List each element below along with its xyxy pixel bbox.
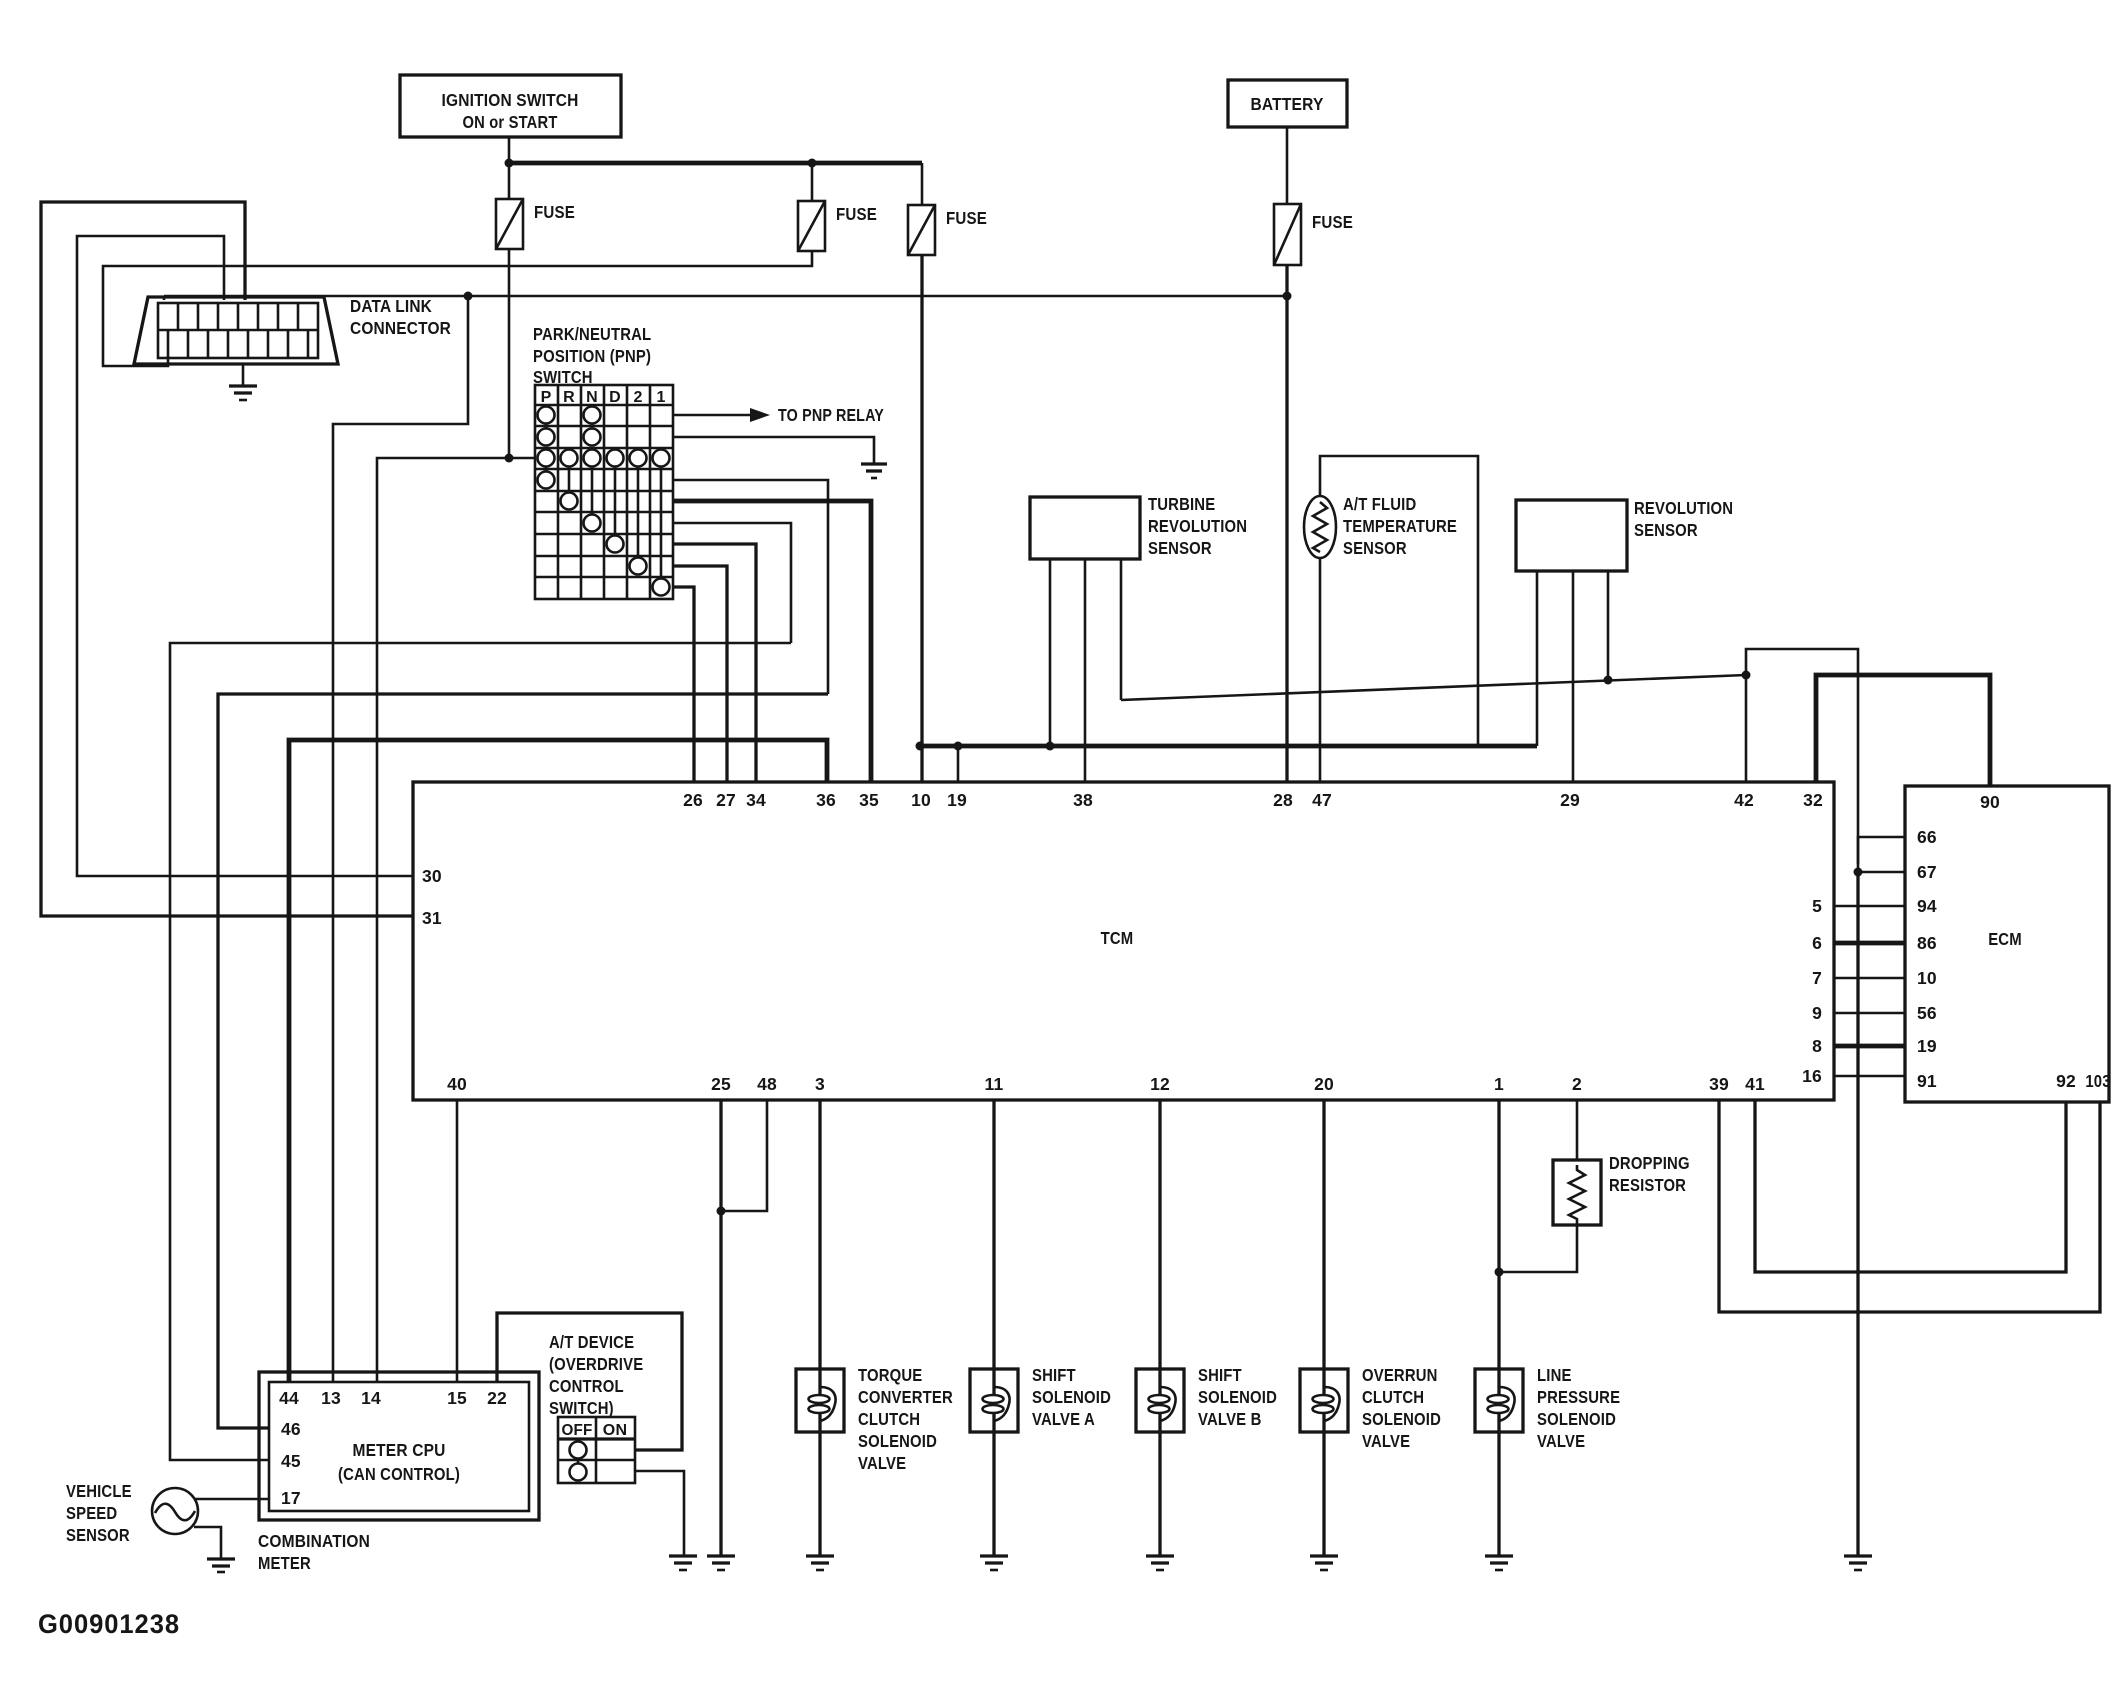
ignition feed bus bbox=[505, 159, 923, 168]
wire TCM pin 11 to shift solenoid A bbox=[992, 1100, 995, 1556]
wire meter pin 22 to A/T device bbox=[497, 1313, 682, 1450]
ground overrun clutch solenoid bbox=[1310, 1556, 1338, 1570]
svg-text:29: 29 bbox=[1560, 790, 1580, 810]
revolution sensor bbox=[1516, 500, 1627, 571]
svg-text:PARK/NEUTRAL: PARK/NEUTRAL bbox=[533, 324, 651, 344]
svg-text:13: 13 bbox=[321, 1388, 341, 1408]
ground shift solenoid A bbox=[980, 1556, 1008, 1570]
wire fuse F2 to data link connector bottom pin bbox=[103, 251, 812, 366]
ground under PNP relay line bbox=[861, 464, 887, 478]
wire dropping resistor to pin1 line bbox=[1499, 1225, 1577, 1272]
wire TCM pin 32 to ECM pin 90 bbox=[1816, 675, 1990, 786]
svg-text:SENSOR: SENSOR bbox=[1148, 538, 1212, 558]
svg-text:DATA LINK: DATA LINK bbox=[350, 296, 432, 316]
shift solenoid B label bbox=[1198, 1365, 1277, 1429]
svg-text:CLUTCH: CLUTCH bbox=[1362, 1387, 1424, 1407]
PNP common feed bbox=[505, 454, 536, 463]
svg-text:CONVERTER: CONVERTER bbox=[858, 1387, 953, 1407]
svg-text:SWITCH): SWITCH) bbox=[549, 1398, 614, 1418]
svg-text:48: 48 bbox=[757, 1074, 777, 1094]
svg-text:1: 1 bbox=[656, 389, 665, 406]
shift solenoid A label bbox=[1032, 1365, 1111, 1429]
svg-text:SOLENOID: SOLENOID bbox=[1198, 1387, 1277, 1407]
svg-text:METER: METER bbox=[258, 1553, 311, 1573]
svg-text:LINE: LINE bbox=[1537, 1365, 1572, 1385]
dropping resistor label bbox=[1609, 1153, 1690, 1195]
TCM-ECM interconnect 5-94 bbox=[1834, 905, 1905, 908]
svg-text:19: 19 bbox=[947, 790, 967, 810]
shift solenoid valve A bbox=[970, 1369, 1018, 1432]
svg-text:VALVE: VALVE bbox=[858, 1453, 906, 1473]
fuse F3 bbox=[908, 163, 987, 255]
TCM-ECM interconnect 16-91 bbox=[1834, 1075, 1905, 1078]
svg-text:SOLENOID: SOLENOID bbox=[858, 1431, 937, 1451]
svg-text:5: 5 bbox=[1812, 896, 1822, 916]
svg-text:103: 103 bbox=[2085, 1071, 2110, 1091]
turbine revolution sensor label bbox=[1148, 494, 1247, 558]
svg-text:CONNECTOR: CONNECTOR bbox=[350, 318, 451, 338]
vehicle speed sensor bbox=[152, 1488, 198, 1534]
TCM right pin labels bbox=[1802, 896, 1822, 1086]
svg-text:G00901238: G00901238 bbox=[38, 1609, 180, 1639]
svg-text:32: 32 bbox=[1803, 790, 1823, 810]
shift solenoid valve B bbox=[1136, 1369, 1184, 1432]
svg-text:38: 38 bbox=[1073, 790, 1093, 810]
wire TCM pin 12 to shift solenoid B bbox=[1158, 1100, 1161, 1556]
svg-text:44: 44 bbox=[279, 1388, 299, 1408]
ground ECM net bbox=[1844, 1556, 1872, 1570]
turbine revolution sensor bbox=[1030, 497, 1140, 559]
overrun clutch solenoid valve bbox=[1300, 1369, 1348, 1432]
wire battery branch to meter pin 13 bbox=[333, 296, 468, 1382]
fuse F4 bbox=[1274, 204, 1353, 265]
svg-text:DROPPING: DROPPING bbox=[1609, 1153, 1690, 1173]
svg-text:35: 35 bbox=[859, 790, 879, 810]
svg-text:VEHICLE: VEHICLE bbox=[66, 1481, 132, 1501]
TCM bottom pin labels bbox=[447, 1074, 1765, 1094]
svg-text:46: 46 bbox=[281, 1419, 301, 1439]
svg-text:28: 28 bbox=[1273, 790, 1293, 810]
wire battery to fuse F4 bbox=[1286, 127, 1289, 204]
ground shift solenoid B bbox=[1146, 1556, 1174, 1570]
meter CPU box bbox=[259, 1372, 539, 1520]
TCM-ECM interconnect 6-86 bbox=[1834, 941, 1905, 946]
svg-text:1: 1 bbox=[1494, 1074, 1504, 1094]
fuse F2 bbox=[798, 163, 877, 251]
wire TCM pin 2 to dropping resistor bbox=[1576, 1100, 1579, 1160]
data link connector label bbox=[350, 296, 451, 338]
svg-text:36: 36 bbox=[816, 790, 836, 810]
svg-text:91: 91 bbox=[1917, 1071, 1937, 1091]
svg-text:8: 8 bbox=[1812, 1036, 1822, 1056]
svg-text:ON: ON bbox=[603, 1422, 627, 1439]
svg-text:20: 20 bbox=[1314, 1074, 1334, 1094]
TCM-ECM interconnect 7-10 bbox=[1834, 977, 1905, 980]
svg-text:P: P bbox=[541, 389, 552, 406]
overrun clutch solenoid label bbox=[1362, 1365, 1441, 1451]
battery box bbox=[1228, 80, 1347, 127]
sensor shield net wire bbox=[1121, 671, 1751, 701]
svg-text:14: 14 bbox=[361, 1388, 381, 1408]
svg-text:10: 10 bbox=[911, 790, 931, 810]
svg-text:19: 19 bbox=[1917, 1036, 1937, 1056]
svg-text:BATTERY: BATTERY bbox=[1251, 94, 1324, 114]
svg-text:10: 10 bbox=[1917, 968, 1937, 988]
wire TCM pin 48 bbox=[721, 1100, 767, 1211]
svg-text:D: D bbox=[609, 389, 621, 406]
park/neutral position switch label bbox=[533, 324, 651, 387]
ECM box bbox=[1905, 786, 2109, 1102]
TCM box bbox=[413, 782, 1834, 1100]
svg-text:COMBINATION: COMBINATION bbox=[258, 1531, 370, 1551]
svg-text:66: 66 bbox=[1917, 827, 1937, 847]
svg-text:2: 2 bbox=[633, 389, 642, 406]
svg-text:12: 12 bbox=[1150, 1074, 1170, 1094]
svg-text:VALVE: VALVE bbox=[1537, 1431, 1585, 1451]
ground torque converter solenoid bbox=[806, 1556, 834, 1570]
wire TCM pin 40 to meter pin 15 bbox=[456, 1100, 459, 1382]
svg-text:METER CPU: METER CPU bbox=[353, 1440, 446, 1460]
turbine sensor left wire bbox=[1046, 559, 1055, 751]
wire fuse F3 to TCM pin 10 bbox=[920, 255, 923, 782]
wire ECM net to ground bbox=[1856, 872, 1859, 1556]
TCM-ECM interconnect 8-19 bbox=[1834, 1044, 1905, 1049]
PNP P-row wire to meter pin 46 bbox=[673, 480, 828, 694]
svg-text:22: 22 bbox=[487, 1388, 507, 1408]
wire DLC pin to TCM pin 30 bbox=[77, 236, 413, 876]
svg-text:16: 16 bbox=[1802, 1066, 1822, 1086]
revolution sensor left wire bbox=[1536, 571, 1539, 746]
svg-text:TORQUE: TORQUE bbox=[858, 1365, 922, 1385]
wrap wire to meter pin 45 bbox=[170, 643, 791, 1460]
wire fuse F4 to TCM pin 28 bbox=[1283, 265, 1292, 782]
wire DLC pin to TCM pin 31 bbox=[41, 202, 413, 916]
wire fuse F1 to PNP common bbox=[508, 249, 511, 458]
svg-text:40: 40 bbox=[447, 1074, 467, 1094]
svg-text:9: 9 bbox=[1812, 1003, 1822, 1023]
svg-text:IGNITION SWITCH: IGNITION SWITCH bbox=[442, 90, 579, 110]
wire sensor net to ECM pins 66 67 bbox=[1746, 649, 1905, 877]
svg-text:CONTROL: CONTROL bbox=[549, 1376, 624, 1396]
data link connector bbox=[134, 297, 338, 364]
wire TCM pin 25 to ground bbox=[717, 1100, 726, 1556]
svg-text:7: 7 bbox=[1812, 968, 1822, 988]
PNP R-row wire to TCM pin 35 bbox=[673, 501, 871, 782]
sensor supply wire bbox=[916, 742, 1538, 751]
wire TCM pin 20 to overrun clutch solenoid bbox=[1322, 1100, 1325, 1556]
meter CPU pin labels bbox=[279, 1388, 507, 1508]
svg-text:2: 2 bbox=[1572, 1074, 1582, 1094]
svg-text:R: R bbox=[563, 389, 575, 406]
revolution sensor label bbox=[1634, 498, 1733, 540]
svg-text:FUSE: FUSE bbox=[836, 204, 877, 224]
A/T device ground wire bbox=[635, 1471, 684, 1556]
ground line pressure solenoid bbox=[1485, 1556, 1513, 1570]
line pressure solenoid label bbox=[1537, 1365, 1620, 1451]
wire ignition to bus bbox=[508, 137, 511, 163]
svg-text:15: 15 bbox=[447, 1388, 467, 1408]
PNP 1-row wire to TCM pin 26 bbox=[673, 587, 694, 782]
A/T device label bbox=[549, 1332, 643, 1418]
A/T device overdrive control switch bbox=[558, 1417, 635, 1483]
ignition switch box bbox=[400, 75, 621, 137]
svg-text:TO PNP RELAY: TO PNP RELAY bbox=[778, 405, 884, 425]
svg-text:94: 94 bbox=[1917, 896, 1937, 916]
torque converter clutch solenoid valve bbox=[796, 1369, 844, 1432]
wire TCM pin 39 to ECM pin 103 bbox=[1719, 1100, 2100, 1312]
svg-text:(OVERDRIVE: (OVERDRIVE bbox=[549, 1354, 643, 1374]
svg-text:39: 39 bbox=[1709, 1074, 1729, 1094]
svg-text:SOLENOID: SOLENOID bbox=[1362, 1409, 1441, 1429]
svg-text:VALVE: VALVE bbox=[1362, 1431, 1410, 1451]
wire TCM pin 42 bbox=[1745, 675, 1748, 782]
svg-text:26: 26 bbox=[683, 790, 703, 810]
wire PNP common to meter pin 14 bbox=[377, 458, 509, 1382]
svg-text:45: 45 bbox=[281, 1451, 301, 1471]
svg-text:56: 56 bbox=[1917, 1003, 1937, 1023]
wire to PNP relay with arrow bbox=[673, 405, 884, 425]
A/T fluid temperature sensor label bbox=[1343, 494, 1457, 558]
TCM-ECM interconnect 9-56 bbox=[1834, 1012, 1905, 1015]
DLC battery stub bbox=[163, 296, 166, 300]
svg-text:RESISTOR: RESISTOR bbox=[1609, 1175, 1686, 1195]
svg-text:17: 17 bbox=[281, 1488, 301, 1508]
svg-text:34: 34 bbox=[746, 790, 766, 810]
svg-text:A/T DEVICE: A/T DEVICE bbox=[549, 1332, 634, 1352]
svg-text:FUSE: FUSE bbox=[946, 208, 987, 228]
PNP row2 ground wire bbox=[673, 437, 874, 464]
svg-text:25: 25 bbox=[711, 1074, 731, 1094]
torque converter clutch solenoid label bbox=[858, 1365, 953, 1473]
svg-text:27: 27 bbox=[716, 790, 736, 810]
stub TCM pin 19 bbox=[957, 746, 960, 782]
wire TCM pin 1 to line pressure solenoid bbox=[1495, 1100, 1504, 1556]
svg-text:REVOLUTION: REVOLUTION bbox=[1148, 516, 1247, 536]
turbine sensor middle wire to TCM pin 38 bbox=[1084, 559, 1087, 782]
ECM pin labels bbox=[1917, 792, 2111, 1091]
svg-text:41: 41 bbox=[1745, 1074, 1765, 1094]
dropping resistor bbox=[1553, 1160, 1601, 1225]
TCM left pin labels bbox=[422, 866, 442, 928]
svg-text:OFF: OFF bbox=[562, 1422, 593, 1439]
ground A/T device bbox=[669, 1556, 697, 1570]
svg-text:REVOLUTION: REVOLUTION bbox=[1634, 498, 1733, 518]
svg-text:OVERRUN: OVERRUN bbox=[1362, 1365, 1438, 1385]
svg-text:47: 47 bbox=[1312, 790, 1332, 810]
svg-text:TURBINE: TURBINE bbox=[1148, 494, 1215, 514]
svg-text:SOLENOID: SOLENOID bbox=[1537, 1409, 1616, 1429]
PNP switch contacts bbox=[538, 407, 670, 596]
PNP switch grid bbox=[535, 385, 673, 599]
svg-text:11: 11 bbox=[985, 1074, 1004, 1094]
svg-text:SOLENOID: SOLENOID bbox=[1032, 1387, 1111, 1407]
svg-text:FUSE: FUSE bbox=[1312, 212, 1353, 232]
svg-text:SHIFT: SHIFT bbox=[1032, 1365, 1076, 1385]
svg-text:92: 92 bbox=[2056, 1071, 2076, 1091]
svg-text:A/T FLUID: A/T FLUID bbox=[1343, 494, 1416, 514]
svg-text:67: 67 bbox=[1917, 862, 1937, 882]
PNP D-row wire to TCM pin 34 bbox=[673, 544, 756, 782]
DLC ground bbox=[229, 364, 257, 400]
svg-text:(CAN CONTROL): (CAN CONTROL) bbox=[338, 1464, 460, 1484]
svg-text:TEMPERATURE: TEMPERATURE bbox=[1343, 516, 1457, 536]
A/T fluid temperature sensor bbox=[1304, 496, 1336, 558]
wire VSS to ground bbox=[194, 1527, 221, 1559]
svg-text:VALVE A: VALVE A bbox=[1032, 1409, 1095, 1429]
svg-text:6: 6 bbox=[1812, 933, 1822, 953]
wire meter pin 44 to TCM pin 36 bbox=[289, 740, 827, 1382]
svg-text:SENSOR: SENSOR bbox=[1343, 538, 1407, 558]
vehicle speed sensor label bbox=[66, 1481, 132, 1545]
wire TCM pin 41 to ECM pin 92 bbox=[1755, 1100, 2066, 1272]
A/T temp sensor top wire loop bbox=[1320, 456, 1478, 746]
svg-text:SHIFT: SHIFT bbox=[1198, 1365, 1242, 1385]
ground TCM pin 25 bbox=[707, 1556, 735, 1570]
svg-text:ON or START: ON or START bbox=[463, 112, 558, 132]
svg-text:PRESSURE: PRESSURE bbox=[1537, 1387, 1620, 1407]
wire TCM pin 3 to torque converter clutch solenoid bbox=[818, 1100, 821, 1556]
svg-text:FUSE: FUSE bbox=[534, 202, 575, 222]
PNP N-row wire to meter pin 45 bbox=[673, 523, 791, 643]
PNP 2-row wire to TCM pin 27 bbox=[673, 566, 727, 782]
svg-text:N: N bbox=[586, 389, 598, 406]
revolution sensor middle wire to TCM pin 29 bbox=[1572, 571, 1575, 782]
TCM top pin labels bbox=[683, 790, 1823, 810]
svg-text:ECM: ECM bbox=[1988, 929, 2022, 949]
svg-text:86: 86 bbox=[1917, 933, 1937, 953]
svg-text:SPEED: SPEED bbox=[66, 1503, 117, 1523]
revolution sensor right wire bbox=[1607, 571, 1610, 681]
fuse F1 bbox=[496, 163, 575, 249]
svg-text:VALVE B: VALVE B bbox=[1198, 1409, 1262, 1429]
svg-text:42: 42 bbox=[1734, 790, 1754, 810]
A/T temp sensor wire to TCM pin 47 bbox=[1319, 558, 1322, 782]
svg-text:POSITION (PNP): POSITION (PNP) bbox=[533, 346, 651, 366]
battery distribution wire bbox=[164, 292, 1287, 301]
wrap wire to meter pin 46 bbox=[218, 694, 828, 1428]
svg-text:90: 90 bbox=[1980, 792, 2000, 812]
svg-text:SENSOR: SENSOR bbox=[1634, 520, 1698, 540]
combination meter label bbox=[258, 1531, 370, 1573]
svg-text:31: 31 bbox=[422, 908, 442, 928]
wire VSS to meter pin 17 bbox=[195, 1498, 269, 1501]
line pressure solenoid valve bbox=[1475, 1369, 1523, 1432]
turbine sensor right wire bbox=[1120, 559, 1123, 700]
svg-text:CLUTCH: CLUTCH bbox=[858, 1409, 920, 1429]
ground VSS bbox=[207, 1559, 235, 1572]
svg-text:3: 3 bbox=[815, 1074, 825, 1094]
svg-text:30: 30 bbox=[422, 866, 442, 886]
svg-text:TCM: TCM bbox=[1101, 928, 1134, 948]
svg-text:SENSOR: SENSOR bbox=[66, 1525, 130, 1545]
